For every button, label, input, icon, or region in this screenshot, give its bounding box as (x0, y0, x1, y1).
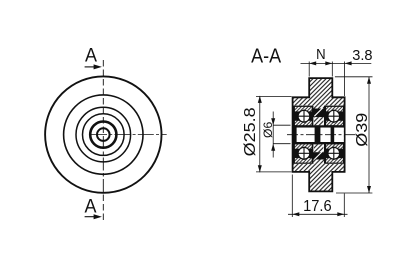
ball lower-left (297, 147, 310, 160)
bearing block lower-left (293, 142, 314, 164)
ball upper-left (297, 110, 310, 123)
circle tread D25.8 (64, 95, 143, 174)
ball upper-right (327, 110, 340, 123)
inner ring face bar left-pair (315, 125, 321, 144)
bearing block upper-left (293, 106, 314, 128)
middle column: rib hatch upper (313, 105, 324, 108)
circle inner ring (90, 122, 116, 148)
race hatch bands lower-right bearing (326, 144, 343, 149)
race hatch bands lower-left bearing (295, 144, 312, 149)
N ext line right (331, 62, 333, 77)
middle column: rib hatch lower (313, 160, 324, 164)
circle seal (83, 114, 125, 156)
bore left wall black (293, 125, 296, 144)
dim 17.6 (288, 175, 348, 218)
horizontal centerline (91, 134, 167, 136)
dim D25.8 (242, 96, 291, 172)
ball lower-right (327, 147, 340, 160)
circle bore D6 (97, 128, 110, 141)
svg-text:Ø6: Ø6 (261, 121, 275, 138)
race hatch bands upper-left bearing (295, 107, 312, 112)
vertical section line A-A dashed (102, 60, 104, 222)
bore bottom edge band (294, 142, 344, 144)
N ext line left (308, 62, 310, 77)
section arrow bottom (85, 214, 102, 219)
3.8 ext line right (344, 62, 346, 97)
middle column: hatch wedge lower (314, 144, 323, 152)
section arrow top (85, 64, 102, 69)
top dimension line (301, 62, 372, 64)
bearing block lower-right (324, 142, 344, 164)
svg-text:N: N (316, 47, 326, 63)
svg-text:Ø39: Ø39 (354, 113, 371, 147)
inner ring face bar right (331, 125, 335, 144)
middle column: black band lower (313, 152, 324, 159)
middle column: hatch wedge upper (314, 117, 323, 125)
svg-text:A: A (85, 195, 97, 217)
race hatch bands upper-right bearing (326, 107, 343, 112)
bore white squares (297, 128, 344, 142)
dim D39 (335, 77, 373, 193)
svg-text:A: A (85, 44, 97, 66)
arrow N right (325, 61, 332, 65)
circle bearing seat (76, 107, 131, 162)
arrow N left (309, 61, 316, 65)
bearing block upper-right (324, 106, 344, 128)
svg-text:3.8: 3.8 (352, 47, 372, 64)
middle column: black band upper (313, 109, 324, 118)
pulley body hatched cross-shape profile (293, 78, 345, 191)
bore top edge band (294, 125, 344, 127)
section horizontal centerline (287, 134, 358, 136)
svg-text:Ø25.8: Ø25.8 (242, 107, 259, 156)
dim D6 (261, 112, 291, 158)
circle outer flange D39 (45, 76, 161, 192)
arrow 3.8 (345, 61, 352, 65)
svg-text:A-A: A-A (251, 45, 281, 68)
bearing cavity white (294, 105, 344, 163)
svg-text:17.6: 17.6 (303, 198, 332, 215)
